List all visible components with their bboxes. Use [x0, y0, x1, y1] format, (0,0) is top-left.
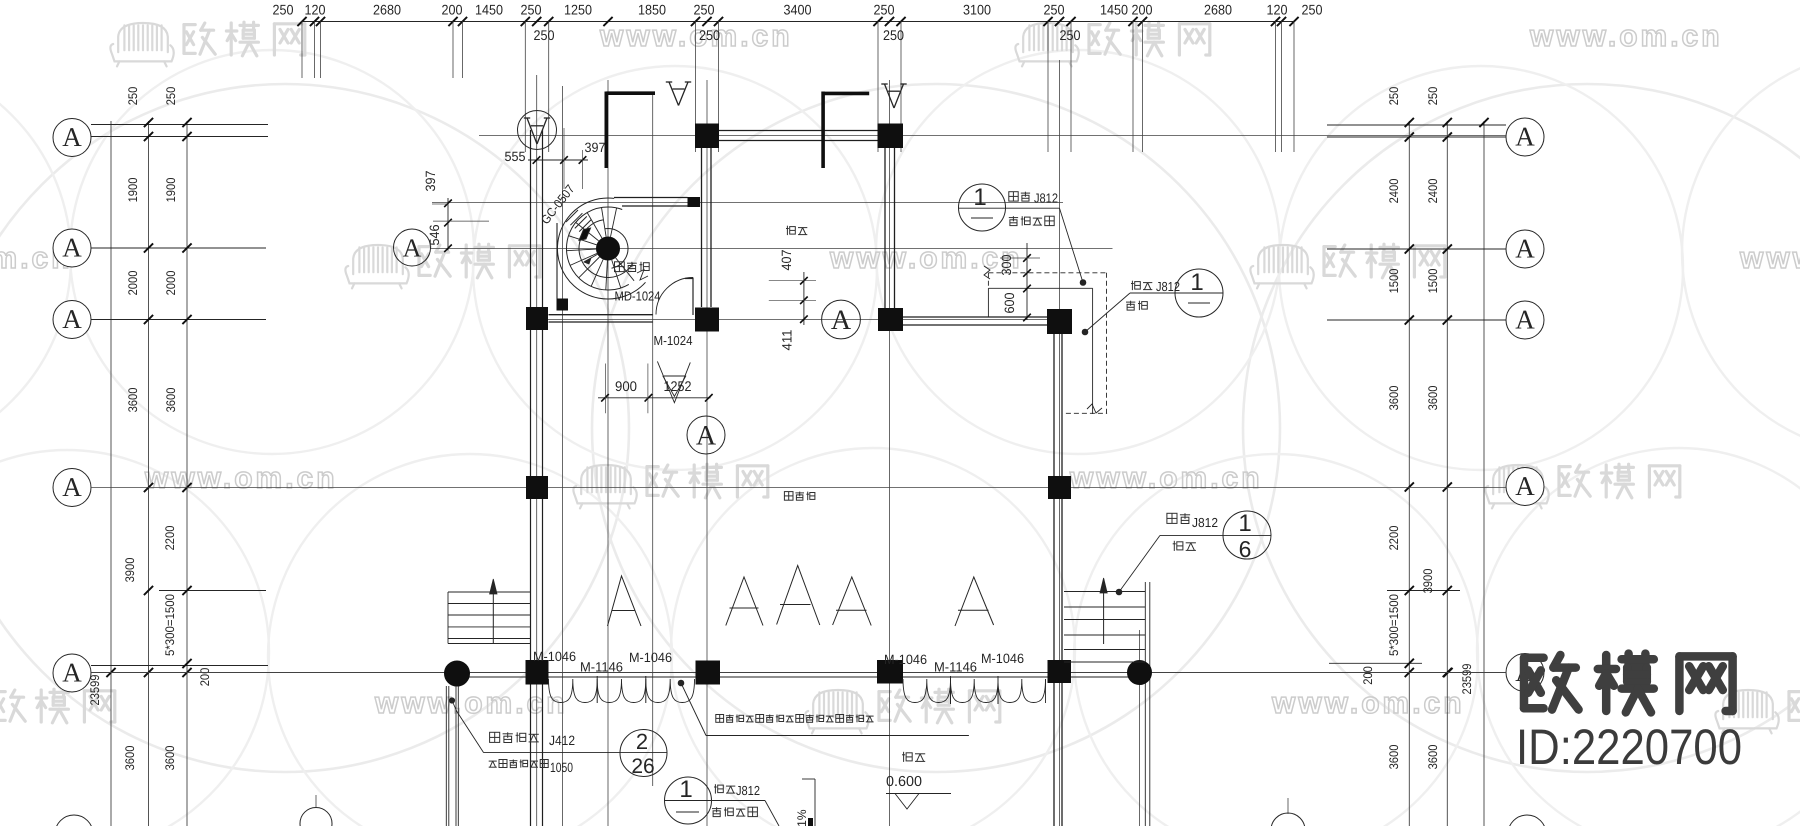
svg-text:3600: 3600 [126, 388, 140, 413]
svg-text:A: A [831, 305, 852, 336]
spiral arc notch [637, 270, 648, 281]
door M-1024 swing arc [656, 278, 693, 315]
left chain vertical lines [110, 121, 112, 826]
svg-text:250: 250 [534, 27, 555, 43]
callout 2 J812 sanshui [1175, 269, 1223, 317]
svg-text:A: A [1515, 122, 1535, 152]
top dimension extension lines [301, 22, 303, 79]
bottom cut bubble left [300, 808, 332, 826]
wall row3 right segment [903, 316, 1047, 318]
wall top row1 [719, 130, 878, 132]
section letter A left [669, 82, 679, 106]
svg-text:2200: 2200 [163, 526, 177, 551]
elevation mark nested V [657, 361, 690, 402]
inline bubble A row3 [822, 300, 861, 339]
svg-text:120: 120 [305, 2, 326, 18]
svg-text:2000: 2000 [164, 271, 178, 296]
column R5C3 [877, 660, 903, 684]
label xuanlita [615, 262, 625, 272]
svg-text:A: A [62, 658, 82, 688]
column R1C2 [878, 124, 904, 149]
arch symbol A group2 [777, 566, 820, 626]
svg-text:2400: 2400 [1387, 179, 1401, 204]
svg-text:250: 250 [874, 2, 895, 18]
arch symbol A group3 [833, 577, 872, 626]
arch symbol A single [608, 576, 642, 626]
svg-text:3600: 3600 [164, 388, 178, 413]
label wailang [902, 752, 912, 762]
section cut bar right [821, 92, 825, 169]
svg-text:A: A [1515, 471, 1535, 501]
svg-text:M-1046: M-1046 [981, 651, 1024, 666]
label shenkan [786, 226, 795, 235]
section letter A right [885, 84, 895, 108]
watermark logo tiles [110, 23, 173, 66]
svg-text:M-1146: M-1146 [580, 660, 623, 675]
canopy break marks [984, 266, 990, 279]
right grid bubbles A [1506, 118, 1544, 156]
right chain ticks [1405, 118, 1414, 127]
svg-text:250: 250 [164, 87, 178, 106]
top dimension ticks [297, 17, 306, 26]
svg-text:250: 250 [1302, 2, 1323, 18]
svg-text:www.om.cn: www.om.cn [1271, 687, 1465, 720]
svg-text:1450: 1450 [1100, 2, 1128, 18]
wall x701 room west [701, 148, 703, 307]
column R3C4 [1047, 309, 1072, 334]
svg-text:MD-1024: MD-1024 [615, 289, 661, 304]
svg-text:A: A [62, 233, 82, 263]
svg-text:1450: 1450 [475, 2, 503, 18]
svg-text:2680: 2680 [1204, 2, 1232, 18]
round column left [445, 661, 470, 686]
wall tower top [614, 197, 688, 199]
svg-text:1: 1 [1238, 510, 1251, 537]
horizontal axis lines [479, 135, 1506, 137]
svg-text:250: 250 [1387, 87, 1401, 106]
callout 1 J812 drain top [959, 184, 1006, 231]
svg-text:A: A [696, 421, 717, 452]
svg-text:M-1024: M-1024 [654, 333, 693, 348]
svg-text:6: 6 [1239, 536, 1252, 562]
svg-text:250: 250 [521, 2, 542, 18]
svg-text:www.om.cn: www.om.cn [374, 687, 568, 720]
callout 3 J812 steps [1223, 511, 1271, 559]
column R5C2 [696, 661, 721, 685]
svg-text:2200: 2200 [1387, 526, 1401, 551]
svg-text:1: 1 [679, 776, 692, 803]
svg-text:A: A [62, 472, 82, 502]
svg-text:J812: J812 [1192, 515, 1218, 530]
svg-text:5*300=1500: 5*300=1500 [163, 594, 177, 656]
dashed canopy rectangle [988, 272, 1107, 274]
svg-text:1500: 1500 [1426, 269, 1440, 294]
svg-text:www.om.cn: www.om.cn [1739, 242, 1800, 275]
stair left treads [448, 591, 531, 593]
spiral stair arrow [584, 254, 598, 262]
svg-text:250: 250 [1060, 27, 1081, 43]
svg-text:1: 1 [1190, 269, 1203, 296]
pier tower top [688, 197, 701, 207]
column R3C3 [878, 308, 903, 331]
inline bubble A row2 [394, 229, 431, 266]
svg-text:J812: J812 [1034, 191, 1058, 206]
svg-text:www.om.cn: www.om.cn [144, 462, 338, 495]
left chain ticks [144, 118, 153, 127]
stair right treads [1064, 591, 1145, 593]
svg-text:3600: 3600 [1426, 745, 1440, 770]
big watermark oumowang [1524, 655, 1579, 710]
svg-text:120: 120 [1267, 2, 1288, 18]
svg-text:M-1146: M-1146 [934, 660, 977, 675]
svg-text:1500: 1500 [1387, 269, 1401, 294]
svg-text:A: A [62, 304, 82, 334]
svg-text:M-1046: M-1046 [629, 650, 672, 665]
svg-text:A: A [1515, 305, 1535, 335]
svg-text:3600: 3600 [123, 746, 137, 771]
spiral stair hatch [566, 210, 578, 222]
svg-text:250: 250 [1426, 87, 1440, 106]
svg-text:www.om.cn: www.om.cn [1069, 462, 1263, 495]
column R3C2 [695, 308, 719, 332]
svg-text:250: 250 [694, 2, 715, 18]
callout 4 2/26 railing [620, 730, 667, 777]
svg-text:1850: 1850 [638, 2, 666, 18]
wall east x1054 vertical [1053, 334, 1055, 826]
spiral stair rings [605, 228, 628, 268]
portico rails left [445, 686, 447, 826]
column R5C1 [526, 660, 549, 685]
column R4C4 [1048, 476, 1071, 499]
dim 300/600 canopy [1026, 243, 1028, 320]
column R4C1 [526, 476, 548, 499]
column R5C4 [1048, 660, 1072, 683]
circled section mark [518, 111, 557, 150]
door leaves right run [950, 676, 952, 704]
svg-text:546: 546 [427, 225, 442, 246]
svg-text:2000: 2000 [126, 271, 140, 296]
svg-text:600: 600 [1002, 293, 1017, 314]
right chain vertical lines [1408, 121, 1410, 826]
svg-text:3600: 3600 [1387, 386, 1401, 411]
svg-text:3400: 3400 [784, 2, 812, 18]
svg-text:250: 250 [273, 2, 294, 18]
svg-text:ID:2220700: ID:2220700 [1516, 719, 1742, 775]
svg-text:397: 397 [585, 140, 606, 155]
stair right arrow [1103, 579, 1105, 644]
svg-text:J812: J812 [736, 783, 760, 798]
spiral stair treads [611, 208, 617, 237]
svg-text:200: 200 [1361, 666, 1375, 685]
svg-text:J412: J412 [549, 733, 575, 748]
svg-text:26: 26 [631, 755, 654, 778]
door arcs M-1046 right run [903, 679, 1046, 703]
wall tower left pair [556, 223, 558, 299]
svg-text:A: A [1515, 234, 1535, 264]
svg-text:1: 1 [973, 184, 986, 211]
svg-text:A: A [403, 234, 422, 263]
portico rails right [1144, 582, 1146, 826]
spiral stair cut wedge [579, 228, 591, 241]
wall x885 room east upper [884, 148, 886, 308]
svg-text:0.600: 0.600 [886, 774, 922, 790]
svg-text:1250: 1250 [564, 2, 592, 18]
svg-text:2400: 2400 [1426, 179, 1440, 204]
left grid bubbles A [53, 119, 91, 157]
svg-text:www.om.cn: www.om.cn [829, 242, 1023, 275]
svg-text:23599: 23599 [1460, 663, 1474, 694]
apron solid lines [988, 287, 1092, 289]
round column right [1128, 661, 1152, 685]
svg-text:250: 250 [1044, 2, 1065, 18]
svg-text:1050: 1050 [550, 760, 573, 775]
svg-text:200: 200 [442, 2, 463, 18]
right chain row lines [1327, 124, 1506, 126]
svg-text:A: A [62, 122, 82, 152]
dim 555/397 top [528, 159, 588, 161]
wall bottom row portico [457, 676, 1140, 678]
svg-text:200: 200 [1132, 2, 1153, 18]
svg-text:M-1046: M-1046 [884, 652, 927, 667]
door M-1024 leaf [692, 278, 694, 316]
column R1C1 [695, 124, 719, 149]
svg-text:i=1%: i=1% [795, 810, 809, 826]
svg-text:250: 250 [126, 87, 140, 106]
svg-text:1900: 1900 [126, 178, 140, 203]
svg-text:407: 407 [779, 250, 794, 271]
section cut bar left [604, 92, 608, 169]
door leaves left run [596, 676, 598, 703]
svg-text:200: 200 [198, 668, 212, 687]
svg-text:J812: J812 [1156, 279, 1180, 294]
svg-text:2680: 2680 [373, 2, 401, 18]
svg-text:250: 250 [883, 27, 904, 43]
bottom cut bubble left chain [55, 815, 93, 826]
bottom cut bubble right [1271, 813, 1305, 826]
svg-text:1900: 1900 [164, 178, 178, 203]
svg-text:3900: 3900 [1421, 569, 1435, 594]
arch symbol A group1 [726, 577, 763, 626]
left chain row lines [91, 124, 268, 126]
dim 900/1252 [598, 397, 711, 399]
svg-text:900: 900 [615, 378, 637, 394]
wall row3 left of door [549, 314, 653, 316]
pier tower left [557, 299, 569, 311]
svg-text:555: 555 [505, 149, 526, 164]
wall west tower vertical [530, 130, 532, 826]
arch symbol A group4 [955, 577, 994, 626]
svg-text:5*300=1500: 5*300=1500 [1387, 594, 1401, 656]
stair left arrow [492, 580, 494, 643]
door arcs M-1046 left run [549, 679, 695, 703]
vertical axis lines [536, 75, 538, 826]
top dimension line [302, 21, 1294, 23]
svg-text:www.om.cn: www.om.cn [1529, 20, 1723, 53]
callout 5 1/- drain bottom [665, 777, 712, 824]
svg-text:250: 250 [699, 27, 720, 43]
dim 397/546 left [447, 198, 449, 251]
svg-text:397: 397 [423, 171, 438, 192]
svg-text:M-1046: M-1046 [533, 649, 576, 664]
spiral stair center [597, 237, 620, 260]
leader door style note [678, 680, 684, 686]
svg-text:3900: 3900 [123, 558, 137, 583]
svg-text:3600: 3600 [1426, 386, 1440, 411]
inline bubble A below dim [687, 416, 725, 454]
svg-text:3100: 3100 [963, 2, 991, 18]
dim 407/411 [803, 272, 805, 325]
svg-text:3600: 3600 [1387, 745, 1401, 770]
svg-text:2: 2 [636, 729, 648, 754]
label libaitang [784, 492, 793, 501]
column R3C1 [526, 307, 548, 330]
svg-text:411: 411 [780, 330, 795, 351]
svg-text:3600: 3600 [163, 746, 177, 771]
bottom cut bubble right chain [1508, 815, 1546, 826]
